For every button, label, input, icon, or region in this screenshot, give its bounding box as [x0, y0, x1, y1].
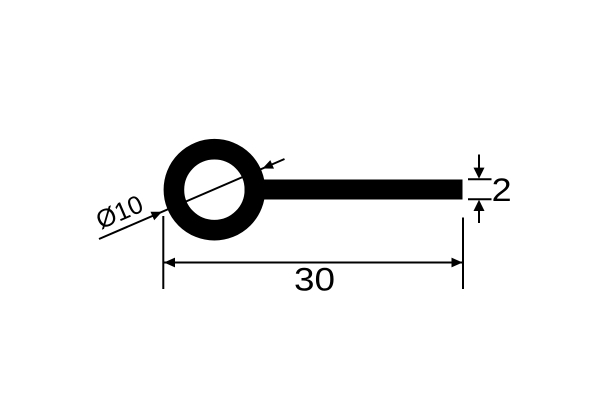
- profile ring (tube cross-section): [174, 149, 255, 230]
- lower arrow line of thickness dimension: [478, 209, 480, 224]
- bottom dimension line: [164, 262, 463, 264]
- right extension line: [462, 218, 464, 290]
- svg-text:Ø10: Ø10: [92, 190, 147, 235]
- arrowhead bottom-left: [164, 258, 175, 268]
- profile flat leg: [245, 180, 463, 200]
- upper arrow line of thickness dimension: [478, 155, 480, 171]
- diagonal dimension line for diameter: [99, 159, 285, 239]
- arrowhead lower-left of diameter line: [151, 212, 163, 221]
- svg-text:30: 30: [294, 261, 335, 298]
- left extension line: [162, 216, 164, 289]
- top tick for thickness dimension: [468, 178, 492, 180]
- arrowhead bottom-right: [452, 258, 463, 268]
- svg-text:2: 2: [492, 172, 512, 208]
- bottom tick for thickness dimension: [468, 198, 492, 200]
- upper arrowhead pointing down: [474, 168, 485, 179]
- lower arrowhead pointing up: [474, 200, 485, 211]
- arrowhead upper-right of diameter line: [263, 160, 275, 169]
